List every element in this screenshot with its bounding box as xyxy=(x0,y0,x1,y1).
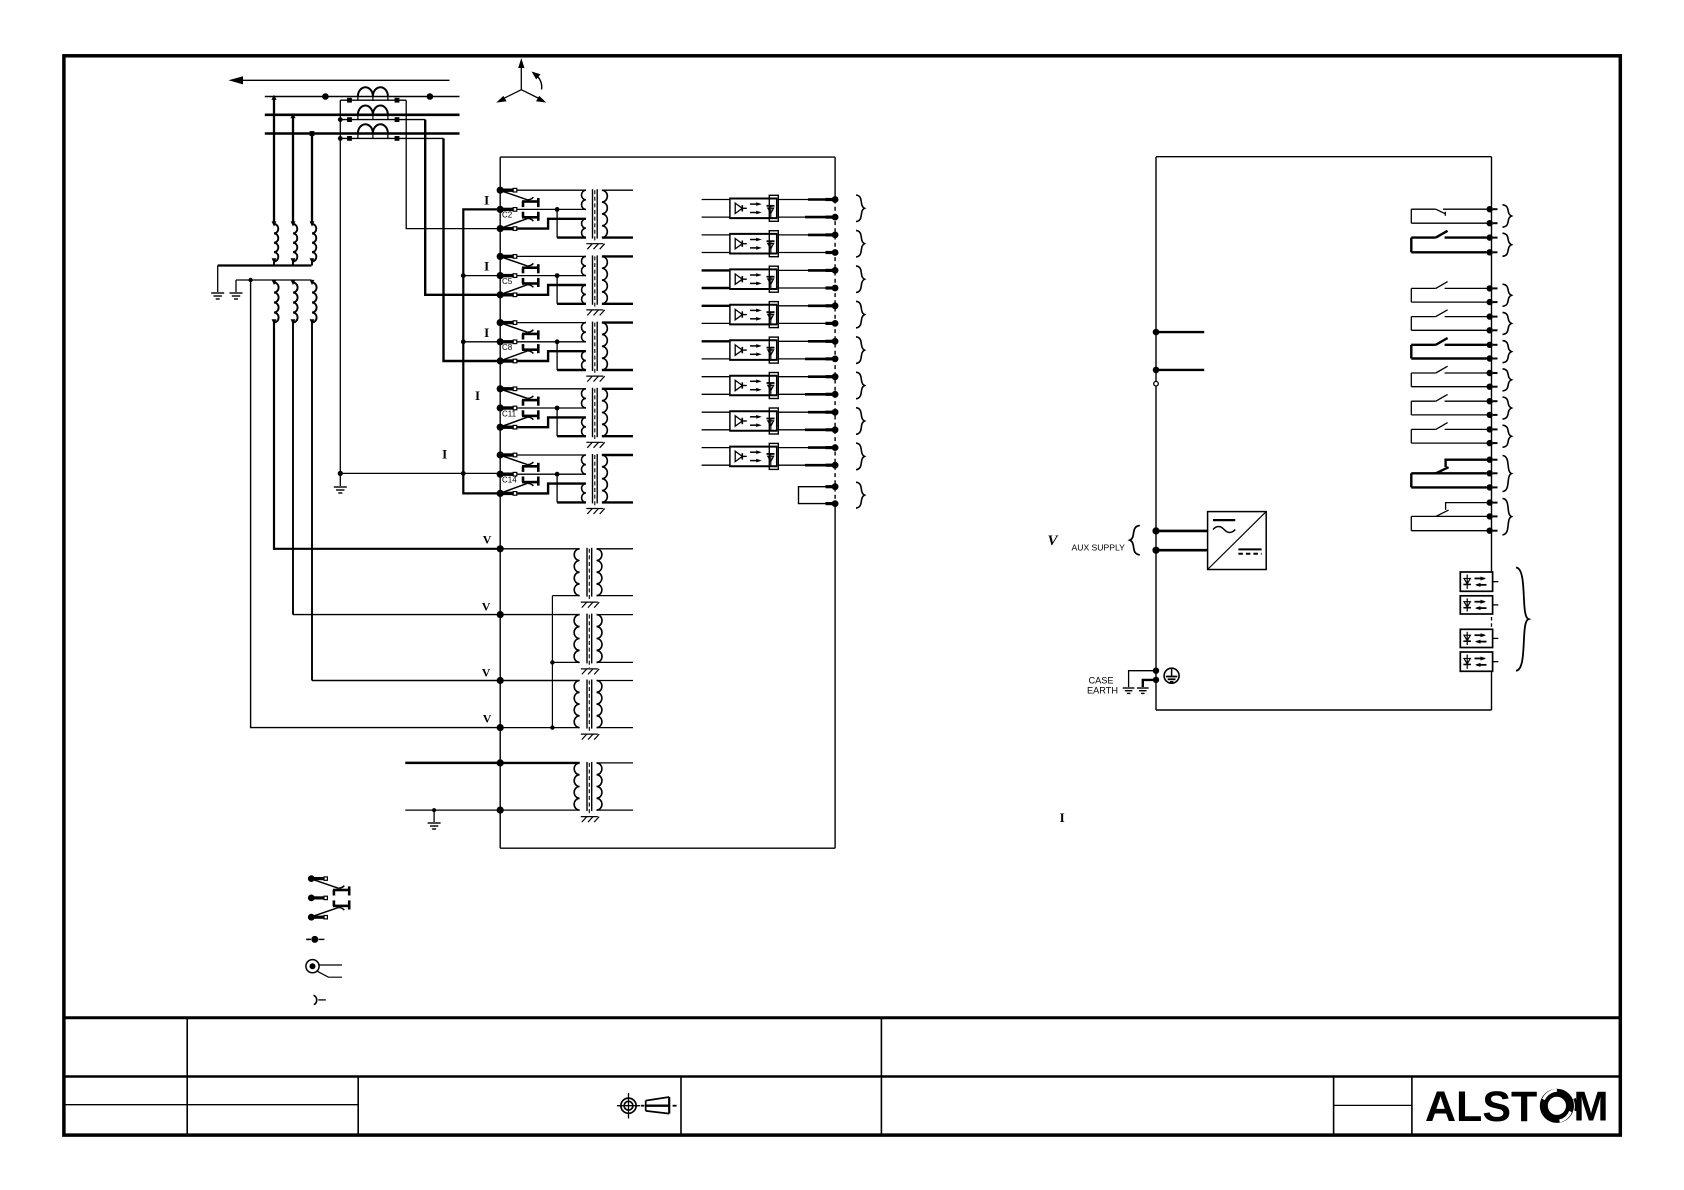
wire: Va to relay terminal xyxy=(274,323,500,549)
current transformer CTA primary coil on phase A xyxy=(358,87,388,101)
voltage transformer input Vb xyxy=(574,614,633,668)
legend: case terminal symbol xyxy=(306,936,324,943)
terminal: case earth stud A xyxy=(1129,668,1160,688)
output relay contact RL6 xyxy=(1411,366,1497,390)
ground symbol: case earth A xyxy=(1123,688,1135,693)
optocoupler output 7 xyxy=(702,408,839,434)
terminal pair brace (RL6) xyxy=(1503,369,1512,391)
svg-text:I: I xyxy=(442,446,447,461)
chassis ground: C5 transformer screen xyxy=(586,310,604,316)
first-angle projection symbol xyxy=(617,1093,677,1119)
ground symbol: VT secondary earth xyxy=(230,293,243,299)
svg-text:C5: C5 xyxy=(502,277,513,286)
changeover relay contact RL9 xyxy=(1411,457,1497,491)
terminal: aux supply - xyxy=(1152,547,1207,554)
terminal: Vb input xyxy=(497,611,504,618)
spare terminal (open circle) xyxy=(1154,381,1159,386)
chassis ground: IN transformer screen xyxy=(581,817,599,823)
current input module C8 (shorting switch + input CT) xyxy=(497,319,633,376)
terminal pair brace (opto 8) xyxy=(856,443,865,470)
svg-text:V: V xyxy=(483,533,492,547)
title block frame xyxy=(64,1018,1620,1135)
output relay contact RL7 xyxy=(1411,394,1497,418)
terminal pair brace (opto 6) xyxy=(856,372,865,399)
ground symbol: IN input earth xyxy=(428,823,441,829)
wire: phase B drop to VT xyxy=(290,113,295,224)
svg-text:C8: C8 xyxy=(502,343,513,352)
wire: VT primary common return xyxy=(500,596,579,730)
output relay contact RL2 xyxy=(1411,231,1497,256)
optocoupler output 8 xyxy=(702,443,839,469)
svg-text:CASE: CASE xyxy=(1089,676,1114,686)
optocoupler output 3 xyxy=(702,266,839,292)
current transformer CTB primary coil on phase B xyxy=(358,106,388,120)
output relay contact RL1 (with indication) xyxy=(1411,206,1497,226)
svg-text:I: I xyxy=(484,193,489,208)
relay case outline (right unit, outputs) xyxy=(1156,157,1492,710)
terminal: Vn input xyxy=(497,724,504,731)
svg-text:M: M xyxy=(1574,1083,1609,1130)
terminal pair brace (RL5) xyxy=(1503,341,1512,363)
svg-text:V: V xyxy=(482,666,491,680)
wire: VT primary star point xyxy=(218,266,312,293)
svg-text:V: V xyxy=(482,599,491,613)
VT phase C secondary winding xyxy=(310,280,317,325)
ground symbol: case earth B xyxy=(1137,688,1149,693)
comms/fibre module 3 xyxy=(1460,629,1498,647)
comms/fibre module 2 xyxy=(1460,596,1498,614)
legend: CT polarity symbol xyxy=(314,995,326,1005)
terminal pair brace (opto 3) xyxy=(856,266,865,293)
terminal pair brace (RL7) xyxy=(1503,397,1512,419)
terminal: aux supply + xyxy=(1152,527,1207,534)
CTA secondary loop and terminals xyxy=(340,97,406,103)
terminal pair brace (RL1) xyxy=(1503,205,1512,227)
output relay contact RL5 xyxy=(1411,338,1497,362)
wire: external link to IN top terminal xyxy=(405,762,500,765)
svg-text:C11: C11 xyxy=(502,409,517,418)
optocoupler output 4 xyxy=(702,302,839,328)
chassis ground: Va VT screen xyxy=(581,602,599,608)
wire: VT secondary common xyxy=(236,278,312,292)
wire: CTC secondary to relay terminal C10 xyxy=(444,138,501,361)
terminal pair brace (opto 1) xyxy=(856,195,865,222)
chassis ground: C8 transformer screen xyxy=(586,376,604,382)
wire: Vc to relay terminal xyxy=(312,323,500,681)
terminal: case earth stud B xyxy=(1143,677,1159,687)
svg-text:V: V xyxy=(1048,533,1060,549)
terminal pair brace (RL4) xyxy=(1503,312,1512,334)
wire: CTB secondary to relay terminal C7 xyxy=(425,120,500,295)
protective earth circle symbol xyxy=(1164,668,1179,683)
busbar phase C xyxy=(265,132,460,135)
svg-text:I: I xyxy=(475,388,480,403)
wire: CTA secondary to relay terminal C4 xyxy=(406,100,500,228)
VT phase B primary winding xyxy=(291,221,298,265)
voltage transformer input Va xyxy=(574,548,633,601)
wire: phase C drop to VT xyxy=(310,132,314,224)
comms/fibre module 4 xyxy=(1460,652,1498,671)
chassis ground: C11 transformer screen xyxy=(586,442,604,448)
legend: earth stud symbol xyxy=(306,960,342,978)
terminal: IN input (top) xyxy=(497,759,504,766)
wire: phase A drop to VT xyxy=(271,95,276,224)
ground symbol: VT primary star point earth xyxy=(211,293,224,299)
svg-text:I: I xyxy=(484,325,489,340)
wire: Vc terminal to winding xyxy=(500,680,579,682)
phase rotation symbol xyxy=(496,58,546,103)
current input module C11 (shorting switch + input CT) xyxy=(497,385,633,442)
terminal pair brace (opto 5) xyxy=(856,337,865,364)
terminal: Vc input xyxy=(497,677,504,684)
junction dots on phase A busbar xyxy=(322,93,433,100)
wire: CT star-point common bus to current inputs xyxy=(461,209,500,493)
aux supply brace xyxy=(1130,526,1140,555)
optocoupler output 6 xyxy=(702,373,839,399)
current input module C14 (shorting switch + input CT) xyxy=(497,451,633,508)
svg-text:C14: C14 xyxy=(502,476,517,485)
svg-text:I: I xyxy=(1060,810,1065,825)
wire: Va terminal to winding xyxy=(500,548,579,550)
output relay contact RL4 xyxy=(1411,310,1497,334)
VT phase A secondary winding xyxy=(272,280,279,325)
chassis ground: Vc VT screen xyxy=(581,734,599,740)
wire: external link to IN bottom terminal with earth xyxy=(405,808,500,822)
optocoupler output 2 xyxy=(702,231,839,257)
changeover relay contact RL10 xyxy=(1411,499,1497,534)
terminal pair brace (opto 2) xyxy=(856,230,865,257)
VT phase A primary winding xyxy=(272,221,279,265)
svg-text:C2: C2 xyxy=(502,211,513,220)
optocoupler output 5 xyxy=(702,337,839,363)
wire: Vb to relay terminal xyxy=(293,323,500,615)
optocoupler output 1 xyxy=(702,195,839,221)
comms modules brace xyxy=(1516,568,1529,671)
comms/fibre module 1 xyxy=(1460,572,1498,591)
wire: CT earth link to terminal C15 xyxy=(338,471,501,486)
VT phase C primary winding xyxy=(310,221,317,265)
wire: Vn neutral to relay terminal xyxy=(251,280,501,728)
neutral current input transformer xyxy=(500,762,633,816)
terminal pair brace (opto 4) xyxy=(856,301,865,328)
svg-text:I: I xyxy=(484,259,489,274)
legend: shorting-switch current input symbol xyxy=(308,875,349,920)
terminal pair brace (RL8) xyxy=(1503,425,1512,447)
CTB secondary loop and terminals xyxy=(338,115,425,122)
terminal pair brace (opto 7) xyxy=(856,408,865,435)
ALSTOM logo xyxy=(1425,1083,1609,1132)
terminal pair brace (RL3) xyxy=(1503,284,1512,306)
current input module C5 (shorting switch + input CT) xyxy=(497,253,633,310)
wire: CT common return (left vertical) xyxy=(339,100,341,473)
terminal: field voltage output + xyxy=(1153,329,1205,336)
chassis ground: C2 transformer screen xyxy=(586,244,604,250)
current transformer CTC primary coil on phase C xyxy=(358,124,388,138)
terminal: field voltage output - xyxy=(1153,367,1205,374)
ground symbol: CT circuit earth xyxy=(334,487,347,493)
busbar phase A xyxy=(265,96,460,98)
output relay contact RL3 xyxy=(1411,282,1497,306)
terminal triple brace (RL10) xyxy=(1503,498,1512,535)
svg-text:V: V xyxy=(483,711,492,725)
relay case outline (left unit, analogue inputs) xyxy=(500,157,835,848)
svg-text:EARTH: EARTH xyxy=(1087,686,1118,696)
svg-text:ALST: ALST xyxy=(1425,1083,1537,1131)
terminal pair brace (link) xyxy=(856,482,865,508)
chassis ground: C14 transformer screen xyxy=(586,509,604,515)
current input module C2 (shorting switch + input CT) xyxy=(497,187,633,244)
dashed case edge segment between comms modules xyxy=(1491,617,1493,627)
output relay contact RL8 xyxy=(1411,423,1497,447)
chassis ground: Vb VT screen xyxy=(581,669,599,675)
VT phase B secondary winding xyxy=(291,280,298,325)
terminal: Va input xyxy=(497,545,504,552)
terminal: IN input (bottom) xyxy=(497,807,504,814)
power supply unit (AC/DC converter) xyxy=(1208,512,1267,570)
voltage transformer input Vc xyxy=(574,680,633,734)
shorting link terminal pair xyxy=(799,483,839,507)
wire: Vb terminal to winding xyxy=(500,614,579,616)
terminal pair brace (RL2) xyxy=(1503,233,1512,256)
svg-text:AUX SUPPLY: AUX SUPPLY xyxy=(1072,542,1126,552)
CTC secondary loop and terminals xyxy=(338,134,444,141)
terminal triple brace (RL9) xyxy=(1503,456,1512,492)
busbar phase B xyxy=(265,114,460,117)
busbar direction arrow xyxy=(229,76,450,84)
